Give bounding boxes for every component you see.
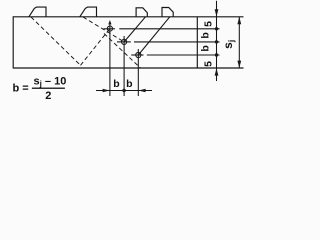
leader line L1 bbox=[124, 17, 145, 42]
gauge line row 3 left piece through mark 3 bbox=[131, 54, 143, 56]
tab 4 bbox=[162, 8, 173, 17]
arrowhead down at top of 5bb5 chain bbox=[215, 9, 219, 16]
arrowhead right at bottom b dimension bbox=[103, 89, 110, 92]
arrowhead left at bottom b dimension bbox=[138, 89, 145, 92]
punch mark circle 2 bbox=[122, 39, 127, 44]
formula fraction bar bbox=[32, 88, 65, 89]
svg-text:b =: b = bbox=[13, 83, 29, 95]
plate top edge with extension bbox=[13, 16, 243, 18]
leader line L2 bbox=[138, 17, 170, 55]
punch mark circle 3 bbox=[136, 52, 141, 57]
arrowhead up at bottom of 5bb5 chain bbox=[215, 68, 219, 75]
plate left edge bbox=[12, 16, 14, 68]
punch mark circle 1 bbox=[107, 26, 112, 31]
junction dot chain y42 bbox=[215, 40, 218, 43]
chain dimension line 5 b b 5 bbox=[216, 1, 218, 81]
plate right edge bbox=[196, 17, 198, 68]
dashed construction line D1 bbox=[31, 17, 81, 65]
svg-text:b: b bbox=[113, 78, 119, 90]
arrowhead up at mark 1 extension bbox=[108, 20, 111, 24]
dashed construction line D2 bbox=[81, 29, 110, 66]
gauge line row 3 bbox=[147, 54, 220, 56]
gauge line row 1 left piece through mark 1 bbox=[104, 28, 116, 30]
dashed construction line D3 bbox=[83, 17, 124, 42]
svg-text:5: 5 bbox=[203, 21, 215, 27]
gauge line row 2 bbox=[134, 41, 220, 43]
tab 3 bbox=[136, 8, 147, 17]
svg-text:2: 2 bbox=[45, 90, 51, 102]
extension line through mark 3 bbox=[137, 49, 139, 96]
tab 2 bbox=[80, 7, 97, 17]
junction dot chain y55 bbox=[215, 53, 218, 56]
gauge line row 2 left piece through mark 2 bbox=[117, 41, 131, 43]
tab 1 bbox=[29, 7, 46, 17]
svg-text:5: 5 bbox=[203, 61, 215, 67]
svg-text:b: b bbox=[200, 45, 212, 51]
junction dot bottom b chain bbox=[122, 89, 125, 92]
svg-text:b: b bbox=[200, 32, 212, 38]
arrowhead down at bottom of sj dimension bbox=[237, 61, 241, 68]
bottom dimension line b b bbox=[96, 90, 152, 92]
svg-text:b: b bbox=[126, 78, 132, 90]
svg-text:sj – 10: sj – 10 bbox=[34, 76, 67, 89]
junction dot chain y29 bbox=[215, 27, 218, 30]
extension line through mark 1 bbox=[109, 23, 111, 96]
gauge line row 1 bbox=[119, 28, 219, 30]
extension line through mark 2 bbox=[123, 36, 125, 96]
arrowhead up at top of sj dimension bbox=[237, 17, 241, 24]
plate bottom edge with extension bbox=[13, 67, 243, 69]
overall dimension line sj bbox=[238, 17, 240, 68]
dashed construction line D4 bbox=[104, 34, 141, 69]
